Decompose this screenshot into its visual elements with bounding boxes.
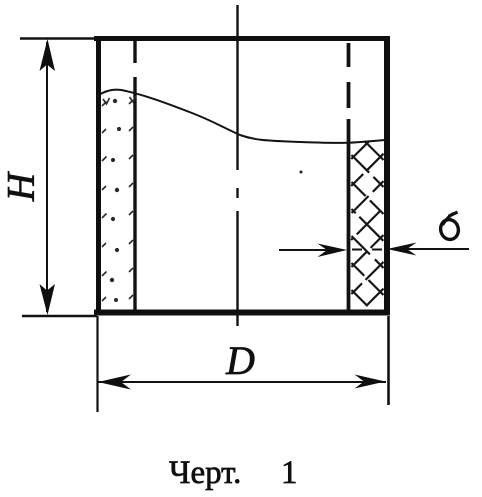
- stray scan dot: [300, 171, 303, 174]
- left outer wall line: [96, 36, 101, 316]
- left inner wall line (dashed above break, solid below): [133, 41, 136, 310]
- centerline (vertical dash-dot axis): [236, 5, 238, 326]
- label b: [439, 212, 461, 241]
- D dimension line: [98, 381, 386, 383]
- D dimension: left extension line: [96, 316, 98, 412]
- section hatching of right wall: [351, 141, 383, 306]
- right inner wall line (dashed above break, solid below): [347, 43, 351, 310]
- sparse hatch remnants in left wall: [102, 96, 136, 301]
- H dimension: bottom extension line: [22, 315, 97, 318]
- b dimension: right leader line with arrow pointing left: [394, 248, 469, 250]
- H arrowhead bottom: [40, 284, 56, 315]
- D arrowhead left: [98, 375, 131, 390]
- b dimension: left leader line with arrow pointing right: [279, 249, 340, 251]
- b dimension: dashes across the wall: [352, 249, 362, 251]
- H dimension: top extension line: [20, 37, 94, 40]
- bottom edge of cylinder: [94, 310, 390, 316]
- H dimension line: [46, 42, 48, 312]
- H arrowhead top: [40, 39, 56, 71]
- break (wavy) line of partial section: [97, 90, 385, 143]
- svg-text:D: D: [225, 338, 255, 383]
- svg-text:H: H: [0, 171, 43, 202]
- right outer wall line: [384, 36, 390, 316]
- D arrowhead right: [355, 375, 386, 389]
- D dimension: right extension line: [387, 316, 390, 405]
- top edge of cylinder: [94, 36, 390, 41]
- svg-text:Черт.1: Черт.1: [169, 455, 298, 491]
